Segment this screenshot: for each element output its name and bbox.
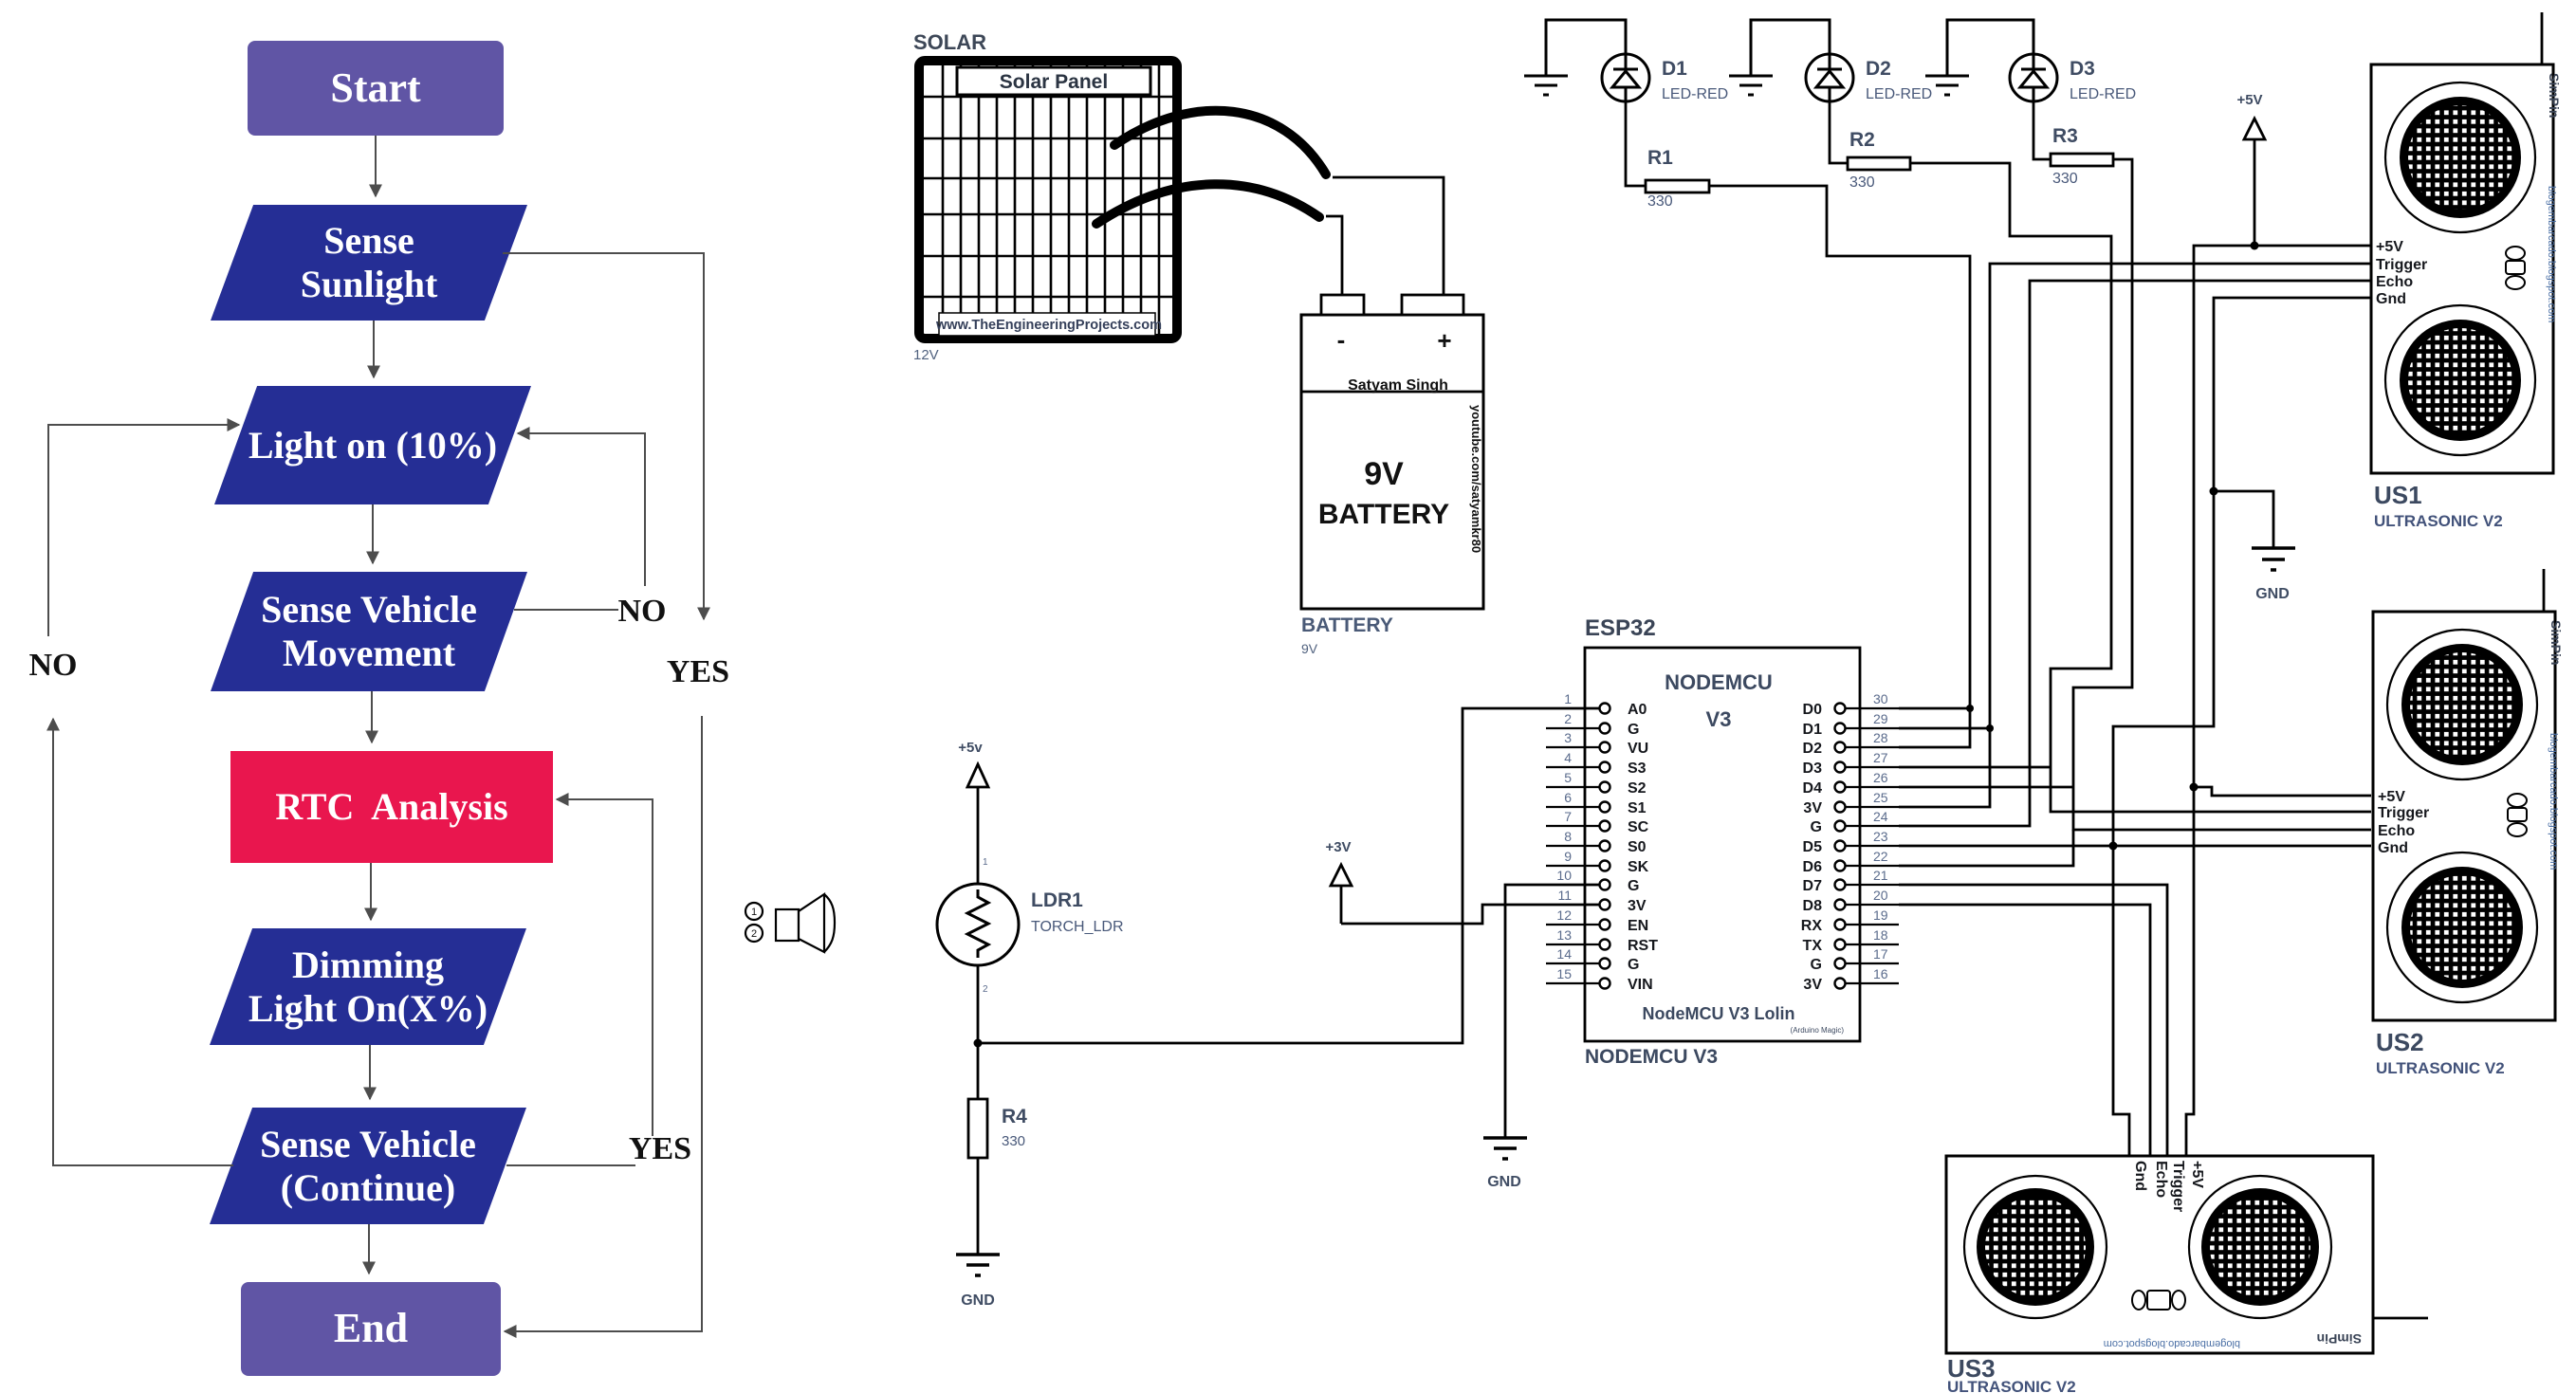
svg-text:27: 27 [1873, 750, 1888, 765]
svg-text:R4: R4 [1002, 1106, 1027, 1127]
pin 8 S0 [1546, 829, 1647, 855]
wire D2 to R2 [1830, 101, 1848, 163]
flowchart process Light on 10% [214, 386, 531, 504]
svg-text:4: 4 [1564, 750, 1572, 765]
svg-text:Echo: Echo [2153, 1161, 2169, 1198]
wire US3 Gnd riser [2113, 846, 2129, 1156]
svg-text:8: 8 [1564, 829, 1572, 844]
svg-text:17: 17 [1873, 946, 1888, 962]
svg-text:330: 330 [2052, 171, 2078, 187]
pin 14 G [1546, 946, 1639, 973]
svg-text:S0: S0 [1628, 839, 1647, 855]
svg-text:A0: A0 [1628, 702, 1647, 718]
svg-text:2: 2 [751, 928, 757, 940]
wire US1 Trigger net to pins D1 and 3V [1899, 264, 2371, 807]
svg-text:30: 30 [1873, 691, 1888, 706]
wire R3 to pin D4 and US2 Echo [2073, 159, 2371, 830]
svg-text:9V: 9V [1301, 641, 1318, 656]
svg-text:NODEMCU V3: NODEMCU V3 [1585, 1046, 1718, 1068]
pin 24 G [1811, 809, 1899, 835]
pin 27 D3 [1803, 750, 1899, 777]
svg-text:ULTRASONIC V2: ULTRASONIC V2 [2374, 512, 2503, 530]
svg-text:3V: 3V [1628, 898, 1647, 914]
svg-text:SC: SC [1628, 819, 1649, 835]
svg-text:5: 5 [1564, 770, 1572, 785]
pin 15 VIN [1546, 966, 1653, 993]
svg-text:S3: S3 [1628, 761, 1647, 777]
pin 13 RST [1546, 927, 1658, 954]
wire thick solar to battery plus [1114, 111, 1326, 174]
wire US1 SimPin stub [2541, 12, 2544, 64]
wire pin D6 branch [1899, 830, 2073, 866]
svg-text:1: 1 [751, 907, 757, 918]
ground GND below R4 [956, 1255, 1000, 1275]
flowchart end box [241, 1282, 501, 1376]
flowchart process Sense Vehicle Continue [210, 1108, 526, 1224]
svg-text:R3: R3 [2052, 125, 2078, 147]
svg-text:SK: SK [1628, 859, 1649, 875]
svg-text:LDR1: LDR1 [1031, 889, 1083, 911]
ultrasonic sensor US2 [2373, 612, 2564, 1020]
wire flow arrow 2 [373, 321, 375, 377]
pin 26 D4 [1803, 770, 1899, 797]
svg-text:3V: 3V [1803, 800, 1822, 816]
svg-text:18: 18 [1873, 927, 1888, 943]
svg-text:Gnd: Gnd [2376, 291, 2406, 307]
wire pin D1 branch [1899, 727, 1990, 730]
pin 17 G [1811, 946, 1899, 973]
svg-text:D5: D5 [1803, 839, 1823, 855]
wire D1 to R1 [1626, 101, 1646, 186]
solar panel SOLAR [919, 61, 1177, 339]
svg-text:13: 13 [1556, 927, 1572, 943]
wire thick solar to battery minus [1096, 184, 1319, 224]
svg-text:12V: 12V [913, 347, 939, 363]
svg-text:YES: YES [667, 654, 729, 689]
wire R4 to ground [977, 1158, 980, 1254]
svg-text:G: G [1811, 819, 1822, 835]
svg-text:G: G [1628, 957, 1639, 973]
svg-text:US2: US2 [2376, 1028, 2424, 1056]
pin 1 A0 [1564, 691, 1647, 718]
svg-text:330: 330 [1849, 174, 1875, 191]
wire left NO loop lower [53, 719, 233, 1165]
svg-text:G: G [1628, 722, 1639, 738]
svg-text:D1: D1 [1803, 722, 1823, 738]
ground GND below NodeMCU [1483, 1138, 1527, 1159]
wire US2 Gnd row pin D5 [1899, 845, 2371, 848]
ground for D2 [1729, 20, 1830, 95]
svg-text:14: 14 [1556, 946, 1572, 962]
svg-text:GND: GND [961, 1292, 995, 1309]
svg-text:LED-RED: LED-RED [1866, 86, 1932, 102]
svg-text:GND: GND [2255, 586, 2290, 602]
wire right YES to End upper [503, 253, 704, 619]
svg-text:19: 19 [1873, 907, 1888, 923]
pin 5 S2 [1546, 770, 1647, 797]
svg-text:+5V: +5V [2376, 239, 2403, 255]
svg-text:SimPin: SimPin [2547, 73, 2562, 118]
ultrasonic sensor US1 [2371, 64, 2562, 473]
wire D3 to R3 [2033, 101, 2051, 159]
svg-text:TX: TX [1803, 938, 1823, 954]
svg-text:R1: R1 [1647, 147, 1673, 169]
wire US2 SimPin stub [2543, 569, 2546, 612]
pin 16 3V [1803, 966, 1899, 993]
svg-text:D2: D2 [1866, 58, 1891, 80]
svg-text:US1: US1 [2374, 481, 2422, 509]
svg-text:G: G [1628, 878, 1639, 894]
svg-text:blogembarcado.blogspot.com: blogembarcado.blogspot.com [2546, 186, 2557, 322]
svg-text:25: 25 [1873, 790, 1888, 805]
pin 21 D7 [1803, 868, 1899, 894]
svg-text:+5V: +5V [2378, 789, 2405, 805]
LDR LDR1 [937, 857, 1019, 995]
svg-text:16: 16 [1873, 966, 1888, 981]
pin 7 SC [1546, 809, 1649, 835]
svg-text:Echo: Echo [2376, 274, 2413, 290]
svg-text:ULTRASONIC V2: ULTRASONIC V2 [2376, 1059, 2505, 1077]
junction dot +5V [2251, 242, 2259, 250]
pin 23 D5 [1803, 829, 1899, 855]
flowchart process Dimming Light On [210, 928, 526, 1045]
pin 12 EN [1546, 907, 1648, 934]
wire US1 Gnd to ground net [2113, 298, 2371, 846]
junction dot US2 +5V branch [2190, 783, 2199, 792]
svg-text:Echo: Echo [2378, 823, 2415, 839]
wire flow arrow 7 [368, 1224, 370, 1274]
wire pin D3 branch [1899, 766, 2051, 769]
svg-text:(Arduino Magic): (Arduino Magic) [1791, 1026, 1845, 1035]
power symbol +5v above LDR1 [958, 740, 988, 884]
svg-text:NO: NO [29, 648, 78, 683]
wire pin D0 branch [1899, 707, 1970, 710]
wire flow arrow 3 [372, 504, 374, 563]
svg-text:7: 7 [1564, 809, 1572, 824]
flowchart process Sense Vehicle Movement [211, 572, 527, 691]
svg-text:23: 23 [1873, 829, 1888, 844]
svg-text:330: 330 [1647, 193, 1673, 210]
wire flow arrow 6 [369, 1045, 371, 1099]
pin 29 D1 [1803, 711, 1899, 738]
svg-text:9: 9 [1564, 849, 1572, 864]
svg-text:Trigger: Trigger [2376, 257, 2427, 273]
svg-text:V3: V3 [1706, 707, 1732, 731]
svg-text:D3: D3 [2070, 58, 2095, 80]
wire US3 SimPin stub [2373, 1317, 2428, 1320]
resistor R3 [2051, 154, 2113, 166]
pin 20 D8 [1803, 888, 1899, 914]
pin 3 VU [1546, 730, 1648, 757]
svg-text:22: 22 [1873, 849, 1888, 864]
battery BAT1 9V [1301, 295, 1483, 609]
pin 2 G [1546, 711, 1639, 738]
pin 11 3V [1557, 888, 1646, 914]
svg-text:blogembarcado.blogspot.com: blogembarcado.blogspot.com [2104, 1338, 2240, 1349]
junction dot LDR divider [974, 1039, 983, 1048]
wire flow arrow 5 [370, 863, 372, 920]
svg-text:D4: D4 [1803, 780, 1823, 797]
resistor R4 [968, 1099, 987, 1158]
pin 18 TX [1803, 927, 1899, 954]
svg-text:SimPin: SimPin [2548, 620, 2564, 665]
svg-text:YES: YES [629, 1131, 691, 1166]
wire flow arrow 4 [371, 691, 373, 742]
svg-text:RST: RST [1628, 938, 1658, 954]
svg-text:NO: NO [618, 594, 667, 629]
pin 28 D2 [1803, 730, 1899, 757]
svg-text:Trigger: Trigger [2378, 805, 2429, 821]
svg-text:NODEMCU: NODEMCU [1665, 670, 1773, 694]
svg-text:6: 6 [1564, 790, 1572, 805]
wire US1 Echo net to pin G [1899, 281, 2371, 826]
flowchart process Sense Sunlight [211, 205, 527, 321]
LED D1 [1602, 54, 1649, 101]
wire US2 +5V branch [2194, 787, 2371, 796]
power symbol +3V [1325, 839, 1352, 924]
svg-text:3: 3 [1564, 730, 1572, 745]
ground GND near US1 [2252, 548, 2295, 570]
svg-text:28: 28 [1873, 730, 1888, 745]
svg-text:Satyam Singh: Satyam Singh [1348, 377, 1448, 394]
buzzer pin numbers [751, 907, 757, 940]
svg-text:-: - [1337, 325, 1346, 354]
wire right NO loop [514, 433, 645, 610]
svg-text:D1: D1 [1662, 58, 1687, 80]
svg-text:1: 1 [1564, 691, 1572, 706]
svg-text:330: 330 [1002, 1133, 1025, 1149]
svg-text:3V: 3V [1803, 977, 1822, 993]
svg-text:BATTERY: BATTERY [1318, 499, 1449, 530]
svg-text:R2: R2 [1849, 129, 1875, 151]
svg-text:1: 1 [983, 857, 988, 868]
pin 10 G [1556, 868, 1639, 894]
svg-text:Gnd: Gnd [2132, 1161, 2148, 1191]
svg-text:VIN: VIN [1628, 977, 1653, 993]
svg-text:GND: GND [1487, 1174, 1521, 1190]
pin 9 SK [1546, 849, 1649, 875]
svg-text:SOLAR: SOLAR [913, 30, 986, 54]
LED D3 [2010, 54, 2057, 101]
wire battery plus terminal [1333, 177, 1444, 295]
svg-text:2: 2 [1564, 711, 1572, 726]
svg-text:Solar Panel: Solar Panel [1000, 71, 1108, 93]
svg-text:S2: S2 [1628, 780, 1647, 797]
pin 22 D6 [1803, 849, 1899, 875]
wire junction to R4 [977, 1043, 980, 1099]
junction dot D1 branch [1986, 724, 1994, 732]
flowchart start box [248, 41, 504, 136]
resistor R1 [1646, 180, 1709, 192]
svg-text:24: 24 [1873, 809, 1888, 824]
svg-text:VU: VU [1628, 741, 1648, 757]
svg-text:S1: S1 [1628, 800, 1647, 816]
ground for D1 [1524, 20, 1626, 95]
svg-text:11: 11 [1557, 888, 1572, 903]
svg-text:ESP32: ESP32 [1585, 615, 1656, 641]
buzzer speaker icon [745, 894, 835, 952]
wire right YES to RTC loop [506, 799, 653, 1165]
svg-text:Gnd: Gnd [2378, 840, 2408, 856]
svg-text:26: 26 [1873, 770, 1888, 785]
svg-text:2: 2 [983, 984, 988, 995]
svg-text:www.TheEngineeringProjects.com: www.TheEngineeringProjects.com [935, 318, 1162, 333]
svg-text:EN: EN [1628, 918, 1648, 934]
pin 19 RX [1801, 907, 1899, 934]
svg-text:+5V: +5V [2189, 1161, 2205, 1188]
wire +3V to pin 3V [1341, 905, 1600, 924]
LED D2 [1806, 54, 1853, 101]
wire right YES to End lower [505, 716, 702, 1331]
junction dot ground branch [2210, 487, 2218, 496]
svg-text:+5V: +5V [2236, 92, 2262, 108]
junction dot D0 branch [1966, 705, 1974, 712]
svg-text:+5v: +5v [958, 740, 983, 756]
svg-text:D7: D7 [1803, 878, 1823, 894]
flowchart process RTC Analysis [230, 751, 553, 863]
ultrasonic sensor US3 [1946, 1156, 2373, 1353]
microcontroller U1 ESP32 NodeMCU V3 [1585, 648, 1860, 1041]
wire +5V rail to US1 and bus down [2186, 246, 2371, 1156]
wire pin D8 to US3 Echo [1899, 905, 2150, 1156]
svg-text:9V: 9V [1364, 456, 1404, 492]
wire R1 to pin D2 net [1709, 186, 1970, 747]
wire pin D7 to US3 Trigger [1899, 885, 2167, 1156]
svg-text:Trigger: Trigger [2170, 1161, 2186, 1212]
wire R2 to pin D3 and US2 Trigger [1910, 163, 2371, 812]
svg-text:+: + [1437, 326, 1451, 355]
svg-text:+3V: +3V [1325, 839, 1351, 855]
svg-text:D8: D8 [1803, 898, 1823, 914]
svg-text:20: 20 [1873, 888, 1888, 903]
svg-text:15: 15 [1556, 966, 1572, 981]
wire pin D4 branch [1899, 786, 2073, 789]
svg-text:G: G [1811, 957, 1822, 973]
svg-text:blogembarcado.blogspot.com: blogembarcado.blogspot.com [2548, 733, 2559, 870]
wire battery minus terminal [1326, 216, 1342, 295]
svg-text:RX: RX [1801, 918, 1823, 934]
wire left NO loop upper [48, 425, 239, 636]
wire branch to GND symbol [2214, 491, 2273, 547]
power symbol +5V top [2236, 92, 2265, 246]
svg-text:D6: D6 [1803, 859, 1823, 875]
wire pin G to ground [1505, 885, 1600, 1137]
svg-text:NodeMCU V3 Lolin: NodeMCU V3 Lolin [1643, 1004, 1795, 1023]
pin 30 D0 [1803, 691, 1899, 718]
svg-text:LED-RED: LED-RED [1662, 86, 1728, 102]
wire flow arrow 1 [375, 136, 377, 196]
svg-text:D3: D3 [1803, 761, 1823, 777]
ground for D3 [1925, 20, 2033, 95]
svg-text:ULTRASONIC V2: ULTRASONIC V2 [1947, 1378, 2076, 1393]
svg-text:12: 12 [1556, 907, 1572, 923]
svg-text:SimPin: SimPin [2317, 1331, 2362, 1347]
svg-text:youtube.com/satyamkr80: youtube.com/satyamkr80 [1469, 405, 1483, 553]
resistor R2 [1848, 157, 1910, 170]
svg-text:TORCH_LDR: TORCH_LDR [1031, 919, 1124, 935]
pin 25 3V [1803, 790, 1899, 816]
svg-text:LED-RED: LED-RED [2070, 86, 2136, 102]
wire LDR1 to junction and pin A0 [978, 708, 1600, 1043]
svg-text:29: 29 [1873, 711, 1888, 726]
pin 4 S3 [1546, 750, 1647, 777]
svg-text:10: 10 [1556, 868, 1572, 883]
pin 6 S1 [1546, 790, 1647, 816]
junction dot US2 Gnd [2109, 842, 2118, 851]
svg-text:BATTERY: BATTERY [1301, 614, 1393, 636]
svg-text:21: 21 [1873, 868, 1888, 883]
svg-text:D0: D0 [1803, 702, 1823, 718]
svg-text:D2: D2 [1803, 741, 1823, 757]
